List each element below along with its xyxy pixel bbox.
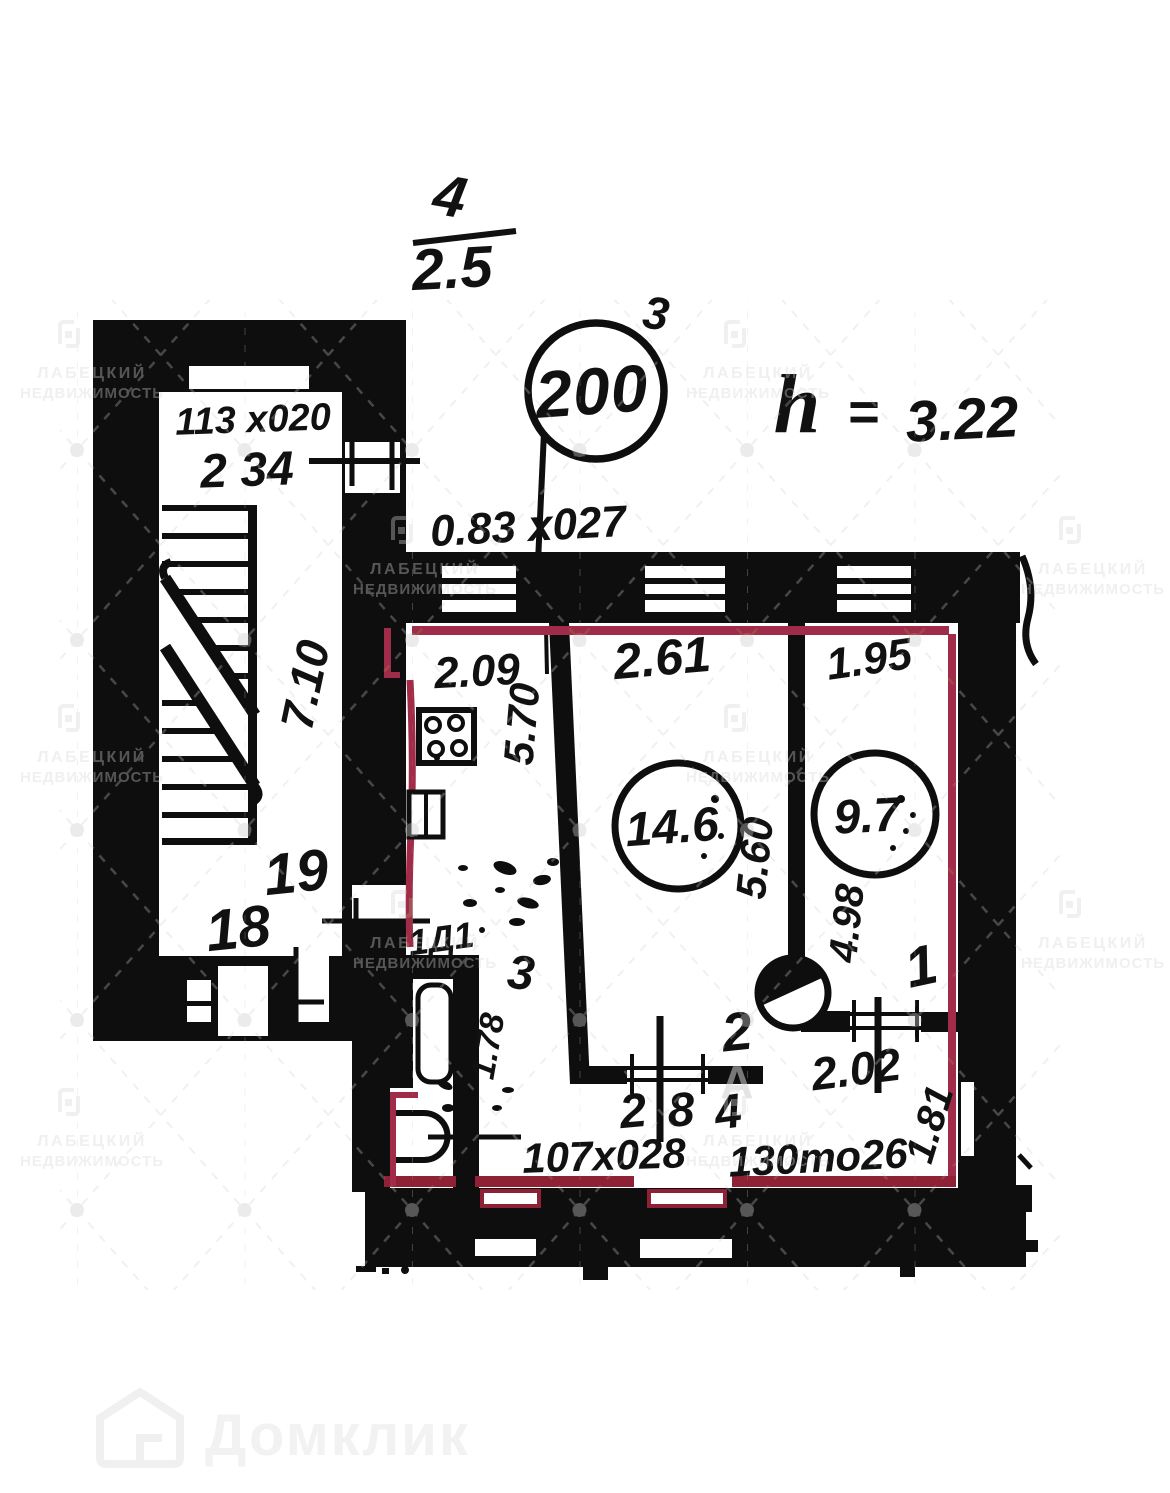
stair-kitchen door gap	[352, 885, 406, 921]
bottom wall window white slots lower row	[475, 1239, 536, 1256]
dim line at 18 door	[322, 919, 430, 924]
red bottom line segments	[384, 1176, 456, 1187]
door 2.02 gap	[850, 1006, 921, 1036]
right wall	[958, 552, 1016, 1267]
stair block bottom window slots	[187, 980, 211, 1001]
red kitchen door jamb	[384, 628, 391, 678]
red framed bottom windows	[482, 1191, 539, 1206]
domclick house icon	[100, 1392, 180, 1464]
dash-dot mark bottom left	[356, 1266, 376, 1272]
dim line below stair block	[294, 947, 299, 1041]
bathroom left wall lower	[352, 1088, 390, 1192]
bottom wall feet	[583, 1267, 608, 1280]
bathroom right wall	[453, 970, 479, 1210]
stairs stringer	[248, 505, 257, 845]
stair block outer wall	[93, 320, 406, 1041]
bath door leaf	[418, 985, 451, 1082]
stove	[419, 710, 474, 763]
pen tick right wall	[1019, 1155, 1031, 1168]
stairs treads lower flight	[162, 700, 252, 845]
door 2.84 gap	[627, 1060, 708, 1088]
window W1	[442, 566, 516, 612]
circle label 9.7	[814, 753, 936, 875]
red inner line top wall	[412, 626, 949, 635]
top wall	[400, 552, 1020, 623]
wall stub right of door 2.02	[921, 1012, 958, 1032]
stair block top window slot	[189, 366, 309, 389]
bathroom top wall	[403, 955, 479, 979]
wall right of vent	[801, 1011, 850, 1032]
bathroom scribbles	[436, 1072, 514, 1112]
dim line at 2.34 door	[309, 458, 420, 464]
sink	[409, 792, 443, 837]
red bathroom line	[390, 1094, 396, 1186]
window W3	[837, 566, 911, 612]
stair entry door white square	[345, 442, 400, 493]
balcony nub right	[1016, 1185, 1032, 1212]
window W2	[645, 566, 725, 612]
red right wall line	[948, 634, 956, 1180]
rooms divider wall	[788, 623, 805, 958]
stairs treads upper flight	[162, 505, 252, 679]
wash basin	[396, 1113, 448, 1160]
pen tail top right	[1022, 556, 1036, 664]
svg-text:Домклик: Домклик	[205, 1403, 470, 1468]
circle label 14.6	[615, 763, 741, 889]
bottom wall	[365, 1188, 1026, 1267]
kitchen smudges	[434, 755, 916, 933]
room 2 bottom wall	[575, 1066, 763, 1084]
vent circle	[758, 958, 828, 1028]
stair block interior white	[159, 392, 342, 956]
circle label 200	[528, 323, 664, 459]
stair diagonal cut upper	[165, 578, 255, 715]
bathroom left wall upper	[352, 958, 413, 1088]
kitchen-room divider wall	[549, 623, 590, 1084]
right wall niche slot	[961, 1082, 974, 1156]
stair diagonal cut lower	[165, 647, 255, 786]
red kitchen left line	[409, 680, 412, 947]
